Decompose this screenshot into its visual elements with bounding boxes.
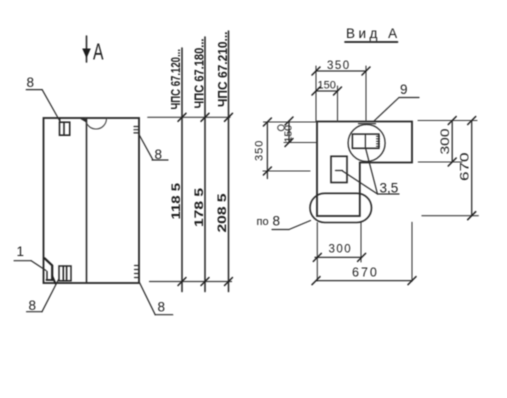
label 8 bottom-left leader [42, 280, 59, 312]
svg-text:350: 350 [254, 140, 266, 161]
bottom extension line [150, 281, 232, 283]
svg-text:208 5: 208 5 [215, 193, 229, 232]
dim line 670 bottom [316, 280, 412, 282]
left dims extension low (350) [263, 170, 310, 172]
bottom ext left [316, 223, 318, 281]
rect inside circle divider [364, 134, 366, 148]
dark wedge at top of fold line [80, 119, 86, 123]
label 9 underline [399, 97, 419, 99]
bottom ext mid [360, 223, 362, 262]
view direction arrow A head [83, 49, 90, 57]
dim 150 left ticks [285, 117, 293, 147]
panel middle fold line [86, 118, 88, 283]
dim line 350 left [266, 122, 268, 179]
label 8 bottom-middle underline [155, 314, 173, 316]
leader 3,5 to circle rect [366, 148, 378, 194]
dim 150 ticks [312, 87, 342, 95]
top-left plate divider [63, 122, 65, 135]
small o artifact [278, 125, 285, 131]
svg-text:8: 8 [158, 300, 166, 315]
bottom-left plate dividers [62, 266, 64, 281]
left dims extension mid (150) [284, 142, 316, 144]
view direction arrow A shaft [86, 36, 88, 62]
label po 8 underline [272, 229, 289, 231]
svg-text:118 5: 118 5 [169, 183, 183, 220]
svg-text:9: 9 [400, 82, 408, 97]
left dims extension top [264, 121, 317, 123]
label 8 right leader [139, 135, 153, 160]
dim line 670 right [471, 121, 473, 216]
panel outline [44, 118, 140, 283]
top extension line [148, 116, 230, 118]
svg-text:по: по [257, 216, 269, 228]
dim 300 bottom ticks [313, 253, 365, 261]
right edge weld ticks top (detail 8) [134, 127, 139, 133]
title underline [345, 41, 398, 43]
dim 350 left ticks [263, 118, 271, 175]
tube rect inner dash [336, 170, 343, 172]
stadium slot (item po 8) [310, 193, 372, 222]
dim 350 ticks [312, 67, 370, 75]
hatch dashes right strip [377, 136, 380, 146]
leader 3,5 to tube dash [343, 171, 378, 194]
slash ticks top row [178, 113, 233, 121]
bottom-left plate detail (item 8) [59, 266, 71, 281]
label 1 underline [14, 260, 31, 262]
semicircle notch at panel top [86, 119, 107, 130]
dim 670 bottom ticks [312, 277, 416, 285]
label 3,5 underline [378, 193, 400, 195]
dim 300 right ticks [448, 117, 456, 167]
svg-text:ЧПС 67.120...: ЧПС 67.120... [168, 49, 183, 110]
bottom ext right [411, 222, 413, 281]
svg-text:300: 300 [440, 129, 452, 155]
right dims extension mid [418, 161, 462, 163]
label 8 bottom-middle leader [139, 282, 155, 315]
dim line 300 bottom [315, 256, 362, 258]
svg-text:3,5: 3,5 [380, 181, 399, 196]
svg-text:8: 8 [29, 298, 37, 313]
notch line under top edge [359, 123, 376, 125]
right dims extension low [422, 215, 478, 217]
svg-text:350: 350 [327, 60, 351, 72]
right dims extension top [418, 120, 477, 122]
svg-text:150: 150 [318, 80, 336, 92]
bottom-left gusset (item 1) [45, 258, 56, 283]
svg-text:150: 150 [283, 125, 295, 143]
svg-text:ЧПС 67.180...: ЧПС 67.180... [192, 39, 207, 109]
dim line 300 right [451, 121, 453, 163]
plan L-shape outline [317, 122, 412, 217]
slash ticks bottom row [178, 278, 233, 286]
dim line 150 left [288, 121, 290, 143]
dimension line CHPS 67.210 [228, 31, 230, 292]
svg-text:300: 300 [329, 244, 353, 256]
svg-text:8: 8 [273, 214, 281, 229]
svg-text:1: 1 [17, 244, 25, 259]
label 8 bottom-left underline [27, 311, 42, 313]
dimension line CHPS 67.120 [181, 48, 183, 292]
label 9 leader [374, 98, 399, 122]
label 1 leader [31, 261, 46, 271]
label po 8 leader [289, 221, 311, 230]
svg-text:670: 670 [352, 266, 379, 280]
svg-text:А: А [93, 39, 104, 65]
svg-text:ЧПС 67.210...: ЧПС 67.210... [215, 32, 230, 108]
right edge weld ticks bottom (detail 8) [135, 266, 139, 278]
dim 670 right ticks [468, 117, 476, 220]
dim line 150 top [316, 90, 338, 92]
small tube rect [331, 156, 347, 182]
label 8 right underline [152, 159, 168, 161]
rect inside circle [352, 134, 379, 148]
svg-text:Вид А: Вид А [346, 26, 401, 41]
dimension line CHPS 67.180 [204, 37, 206, 292]
label 8 top-left underline [26, 89, 42, 91]
top dim 350 extension right [365, 66, 367, 122]
svg-text:178 5: 178 5 [192, 188, 206, 227]
top dim 150 extension [337, 86, 339, 122]
top dim 350 extension left [315, 66, 317, 122]
top-left plate detail (item 8) [60, 122, 70, 135]
svg-text:8: 8 [27, 75, 35, 90]
top-left plate stub to edge [59, 118, 61, 122]
label 8 top-left leader [42, 90, 59, 121]
dim line 350 top [316, 70, 366, 72]
svg-text:670: 670 [460, 153, 472, 182]
circle boss (item 9) [348, 125, 385, 162]
